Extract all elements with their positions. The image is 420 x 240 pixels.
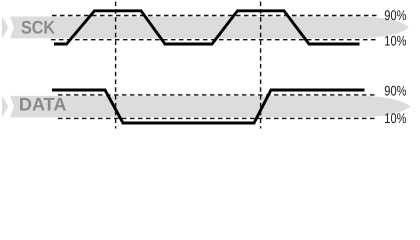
SCK band (10%-90% shaded region with arrow tip) [10, 17, 409, 39]
DATA band break chevron [2, 96, 8, 117]
vertical cursor 1 (first SCK pulse center) [115, 2, 117, 129]
svg-text:90%: 90% [384, 7, 406, 23]
svg-text:SCK: SCK [21, 16, 56, 37]
SCK 10% reference dashed line [51, 39, 378, 41]
DATA waveform [52, 90, 365, 123]
svg-text:DATA: DATA [19, 93, 67, 114]
DATA 90% reference dashed line [58, 94, 378, 96]
svg-text:10%: 10% [384, 32, 406, 48]
DATA 10% reference dashed line [58, 117, 378, 119]
DATA band (10%-90% shaded region with arrow tip) [10, 96, 411, 117]
SCK waveform [54, 11, 360, 44]
vertical cursor 2 (second SCK pulse center) [260, 2, 262, 129]
svg-text:90%: 90% [384, 82, 406, 98]
SCK 90% reference dashed line [52, 15, 378, 17]
svg-text:10%: 10% [384, 110, 406, 126]
SCK band break chevron [2, 17, 8, 39]
